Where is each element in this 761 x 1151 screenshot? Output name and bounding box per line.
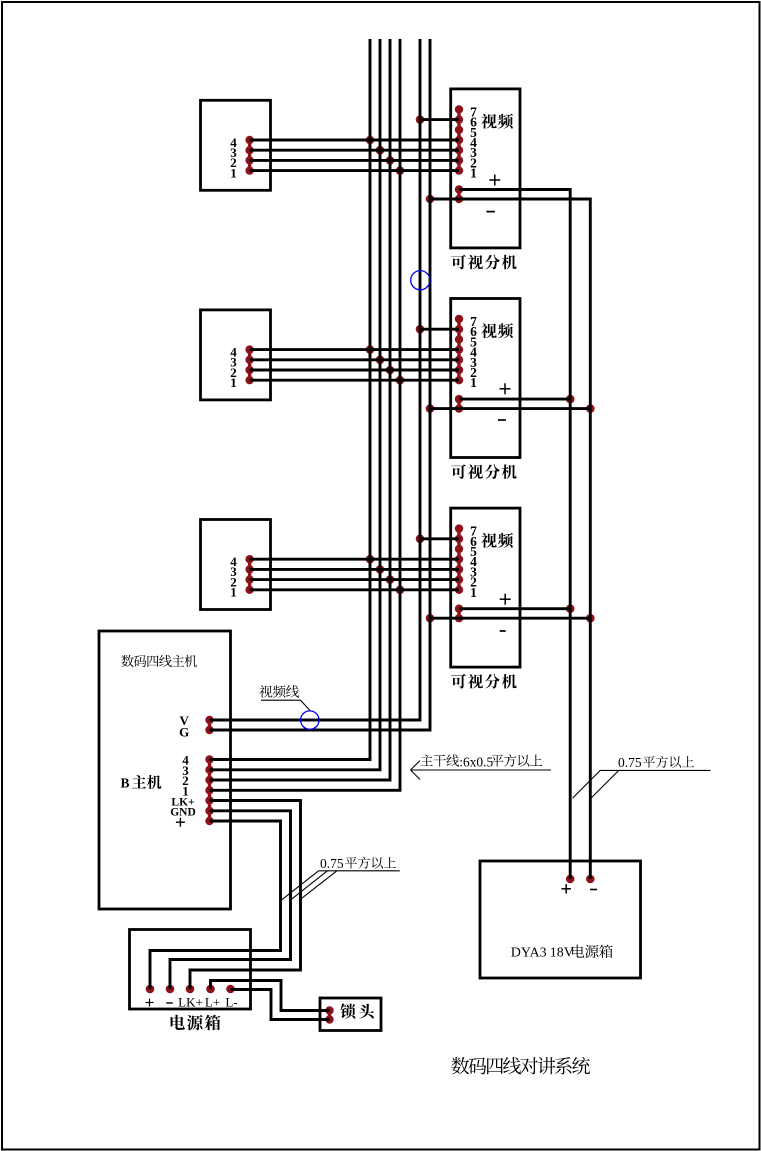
label + - of DYA3 <box>561 884 571 894</box>
wire main unit + to power box + <box>150 821 281 989</box>
junction dot unit2 pin6 on video bus V <box>416 325 425 334</box>
pin numbers 4,3,2,1 left box unit3 <box>230 554 237 600</box>
wire unit3 + terminal to +supply line <box>459 607 570 610</box>
label 视频线 with leader <box>259 685 299 698</box>
svg-text:LK+: LK+ <box>178 995 203 1010</box>
blue circle annotation on V wire (视频线) <box>301 711 319 729</box>
wire main unit LK+ to power box LK+ <box>190 801 301 990</box>
unit1 door-station connector pins 7..1 (dots) <box>455 105 463 175</box>
label 视频 unit3 <box>481 533 513 548</box>
wire unit3 row 4 (left box pin 4 to door station pin 4) <box>250 558 459 561</box>
junction dot unit2 minus on -supply line <box>586 404 595 413</box>
svg-text:1: 1 <box>230 585 237 600</box>
trunk bus wire 4 (vertical x=370, to main unit pin 4) <box>210 39 371 760</box>
junction dot unit1 minus on bus G <box>426 195 435 204</box>
unit3 door station box (可视分机) <box>451 508 520 667</box>
wire unit1 pin6 to video bus V <box>420 118 459 121</box>
svg-text::6x0.5: :6x0.5 <box>459 754 493 769</box>
pin numbers 7..1 unit3 <box>470 524 477 600</box>
unit1 left connector box <box>201 100 271 190</box>
wire main unit GND to power box - <box>170 811 291 989</box>
label 视频 unit1 <box>481 114 513 129</box>
label 数码四线主机 <box>121 655 197 667</box>
label 电源箱 <box>171 1015 221 1031</box>
pin numbers 7..1 unit1 <box>470 104 477 180</box>
unit3 left connector box <box>201 520 271 610</box>
wire unit1 + terminal to +supply line <box>459 190 570 880</box>
wire power box L+ to lock <box>211 981 330 1011</box>
unit2 door-station +/- terminal dots <box>455 395 463 413</box>
label + terminal unit3 <box>500 594 511 605</box>
wire unit1 row 4 (left box pin 4 to door station pin 4) <box>250 139 459 142</box>
wire unit2 row 3 (left box pin 3 to door station pin 3) <box>250 358 459 361</box>
wire unit2 pin6 to video bus V <box>420 328 459 331</box>
video bus wire V (vertical x=420 to main unit pin V) <box>210 39 421 720</box>
unit1 left connector pins 4,3,2,1 (dots) <box>245 136 253 175</box>
label - terminal unit3 <box>500 630 506 632</box>
main pin labels 4,3,2,1,LK+,GND,+ <box>170 753 196 819</box>
junction dot unit2 plus on +supply line <box>566 395 575 404</box>
label 主干线:6x0.5平方以上 with arrow <box>421 754 459 766</box>
lock box (锁头) <box>320 998 381 1031</box>
wire unit2 row 4 (left box pin 4 to door station pin 4) <box>250 348 459 351</box>
junction dots unit2 rows on buses 4,3,2,1 <box>366 345 405 384</box>
svg-text:L-: L- <box>225 995 237 1010</box>
trunk bus wire 2 (vertical x=390, to main unit pin 2) <box>210 39 391 780</box>
unit2 door-station connector pins 7..1 (dots) <box>455 315 463 385</box>
svg-text:DYA3: DYA3 <box>511 946 547 961</box>
power box pin labels + - LK+ L+ L- <box>146 999 173 1007</box>
label - terminal unit1 <box>486 211 495 213</box>
svg-text:18V: 18V <box>550 946 574 961</box>
junction dot unit3 pin6 on video bus V <box>416 535 425 544</box>
power supply box DYA3 <box>480 861 641 978</box>
pin numbers 4,3,2,1 left box unit2 <box>230 344 237 390</box>
svg-text:0.75: 0.75 <box>618 755 642 770</box>
main unit pins V,G (dots) <box>205 716 213 734</box>
svg-text:G: G <box>179 724 189 739</box>
main unit box (数码四线主机) <box>99 631 231 909</box>
unit2 left connector pins 4,3,2,1 (dots) <box>245 345 253 384</box>
junction dots unit1 rows on buses 4,3,2,1 <box>366 136 405 175</box>
unit1 door-station +/- terminal dots <box>455 185 463 203</box>
unit2 door station box (可视分机) <box>451 299 520 458</box>
wire unit3 pin6 to video bus V <box>420 537 459 540</box>
pin numbers 4,3,2,1 left box unit1 <box>230 135 237 181</box>
trunk bus wire 1 (vertical x=400, to main unit pin 1) <box>210 39 401 790</box>
power box (电源箱) <box>130 930 251 1010</box>
blue circle annotation on video bus V <box>411 271 430 290</box>
unit3 left connector pins 4,3,2,1 (dots) <box>245 555 253 594</box>
wire unit1 row 1 (left box pin 1 to door station pin 1) <box>250 169 459 172</box>
wire unit3 row 1 (left box pin 1 to door station pin 1) <box>250 588 459 591</box>
svg-text:0.75: 0.75 <box>320 856 344 871</box>
label 可视分机 unit3 <box>451 674 516 689</box>
label 锁头 <box>340 1004 374 1019</box>
label 可视分机 unit1 <box>451 255 516 270</box>
wire unit3 row 2 (left box pin 2 to door station pin 2) <box>250 578 459 581</box>
svg-text:L+: L+ <box>205 995 220 1010</box>
pin numbers 7..1 unit2 <box>470 314 477 390</box>
svg-text:GND: GND <box>170 807 196 819</box>
svg-text:B: B <box>121 776 130 791</box>
wire unit2 row 1 (left box pin 1 to door station pin 1) <box>250 379 459 382</box>
junction dot unit3 minus on bus G <box>426 614 435 623</box>
junction dot unit2 minus on bus G <box>426 404 435 413</box>
main unit pins 4,3,2,1,LK+,GND,+ (dots) <box>205 755 213 825</box>
trunk bus wire 3 (vertical x=380, to main unit pin 3) <box>210 39 381 770</box>
junction dot unit3 plus on +supply line <box>566 604 575 613</box>
wire unit1 - terminal (bus G to -supply line) <box>430 199 590 879</box>
title 数码四线对讲系统 <box>451 1057 590 1075</box>
svg-text:1: 1 <box>230 165 237 180</box>
wire unit3 row 3 (left box pin 3 to door station pin 3) <box>250 568 459 571</box>
unit1 door station box (可视分机) <box>451 89 520 248</box>
wire unit2 row 2 (left box pin 2 to door station pin 2) <box>250 369 459 372</box>
wire unit1 row 2 (left box pin 2 to door station pin 2) <box>250 159 459 162</box>
video bus wire G (vertical x=430 to main unit pin G) <box>210 39 431 730</box>
junction dot unit1 pin6 on video bus V <box>416 115 425 124</box>
junction dots unit3 rows on buses 4,3,2,1 <box>366 555 405 594</box>
label 可视分机 unit2 <box>451 464 516 479</box>
unit2 left connector box <box>201 310 271 400</box>
junction dot unit3 minus on -supply line <box>586 614 595 623</box>
svg-text:1: 1 <box>470 375 477 390</box>
label 视频 unit2 <box>481 323 513 338</box>
power supply DYA3 +,- terminal dots <box>566 875 595 884</box>
wire unit3 - terminal (bus G to -supply line) <box>430 617 590 620</box>
unit3 door-station connector pins 7..1 (dots) <box>455 524 463 594</box>
label - terminal unit2 <box>498 419 506 421</box>
svg-text:1: 1 <box>230 375 237 390</box>
svg-text:1: 1 <box>470 166 477 181</box>
svg-text:1: 1 <box>470 585 477 600</box>
power box pins +,-,LK+,L+,L- (dots) <box>146 985 235 994</box>
wire unit1 row 3 (left box pin 3 to door station pin 3) <box>250 149 459 152</box>
label + terminal unit2 <box>500 383 511 394</box>
label + terminal unit1 <box>489 175 500 186</box>
wire unit2 + terminal to +supply line <box>459 398 570 401</box>
lock terminals (dots) <box>325 1006 333 1023</box>
wire unit2 - terminal (bus G to -supply line) <box>430 407 590 410</box>
wire power box L- to lock <box>231 990 330 1020</box>
unit3 door-station +/- terminal dots <box>455 605 463 623</box>
